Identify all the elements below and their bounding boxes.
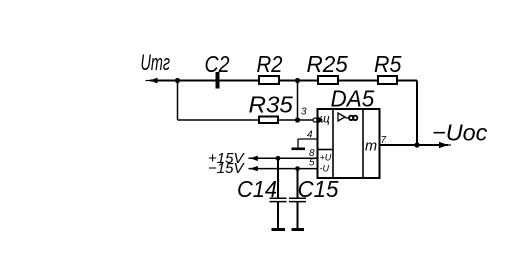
svg-text:R25: R25 xyxy=(307,51,349,77)
svg-text:щ: щ xyxy=(320,112,330,126)
svg-text:R35: R35 xyxy=(249,92,294,118)
op-amp DA5 body xyxy=(318,109,380,178)
wire -15V to pin5 xyxy=(249,168,318,170)
wire: output xyxy=(380,144,449,146)
node: inverting input junction xyxy=(295,117,300,122)
op-amp amplifier symbol triangle+infinity xyxy=(338,113,357,121)
ground bar C15 xyxy=(292,228,305,231)
pin 4 wire xyxy=(298,138,318,140)
capacitor C14 xyxy=(270,158,287,229)
wire: R35 row left xyxy=(178,119,259,121)
svg-text:R5: R5 xyxy=(374,51,402,77)
wire +15V to pin8 xyxy=(249,157,318,159)
svg-text:5: 5 xyxy=(309,158,315,169)
node C15 tap xyxy=(295,166,300,171)
ground bar pin4 xyxy=(292,148,306,151)
resistor R35 xyxy=(259,117,278,124)
svg-text:C2: C2 xyxy=(205,51,230,77)
svg-text:−15V: −15V xyxy=(208,160,245,177)
svg-text:C15: C15 xyxy=(298,176,340,202)
wire: left branch down xyxy=(177,81,179,121)
wire: R35 to pin3 xyxy=(279,119,318,121)
pin 4 ground drop xyxy=(297,139,299,148)
capacitor C15 xyxy=(289,169,306,229)
resistor R5 xyxy=(378,76,397,84)
svg-text:3: 3 xyxy=(301,107,307,118)
node: output junction xyxy=(414,142,419,147)
resistor R2 xyxy=(259,76,279,84)
pin 3 inversion circle xyxy=(313,118,317,122)
svg-text:−Uос: −Uос xyxy=(432,120,488,146)
wire: feedback right vertical xyxy=(416,81,418,146)
node: input junction xyxy=(175,78,180,83)
svg-text:DA5: DA5 xyxy=(331,86,376,112)
svg-text:+U: +U xyxy=(320,153,332,163)
svg-text:R2: R2 xyxy=(257,51,283,77)
svg-text:C14: C14 xyxy=(237,176,277,202)
+15V arrow xyxy=(250,156,258,161)
capacitor C2 (plates merged bar) xyxy=(216,72,220,89)
node C14 tap xyxy=(276,156,281,161)
svg-text:-U: -U xyxy=(320,164,330,174)
input arrow xyxy=(146,78,159,84)
-15V arrow xyxy=(250,166,258,171)
node: R2/R25 junction xyxy=(295,78,300,83)
svg-text:т: т xyxy=(365,138,377,154)
pin 3 arrow xyxy=(319,117,324,123)
ground bar C14 xyxy=(272,228,286,231)
output arrow xyxy=(439,142,451,148)
svg-text:Uтг: Uтг xyxy=(141,50,171,75)
wire: top main wire xyxy=(150,80,417,82)
resistor R25 xyxy=(318,76,338,84)
wire: mid vertical junction xyxy=(297,81,299,121)
